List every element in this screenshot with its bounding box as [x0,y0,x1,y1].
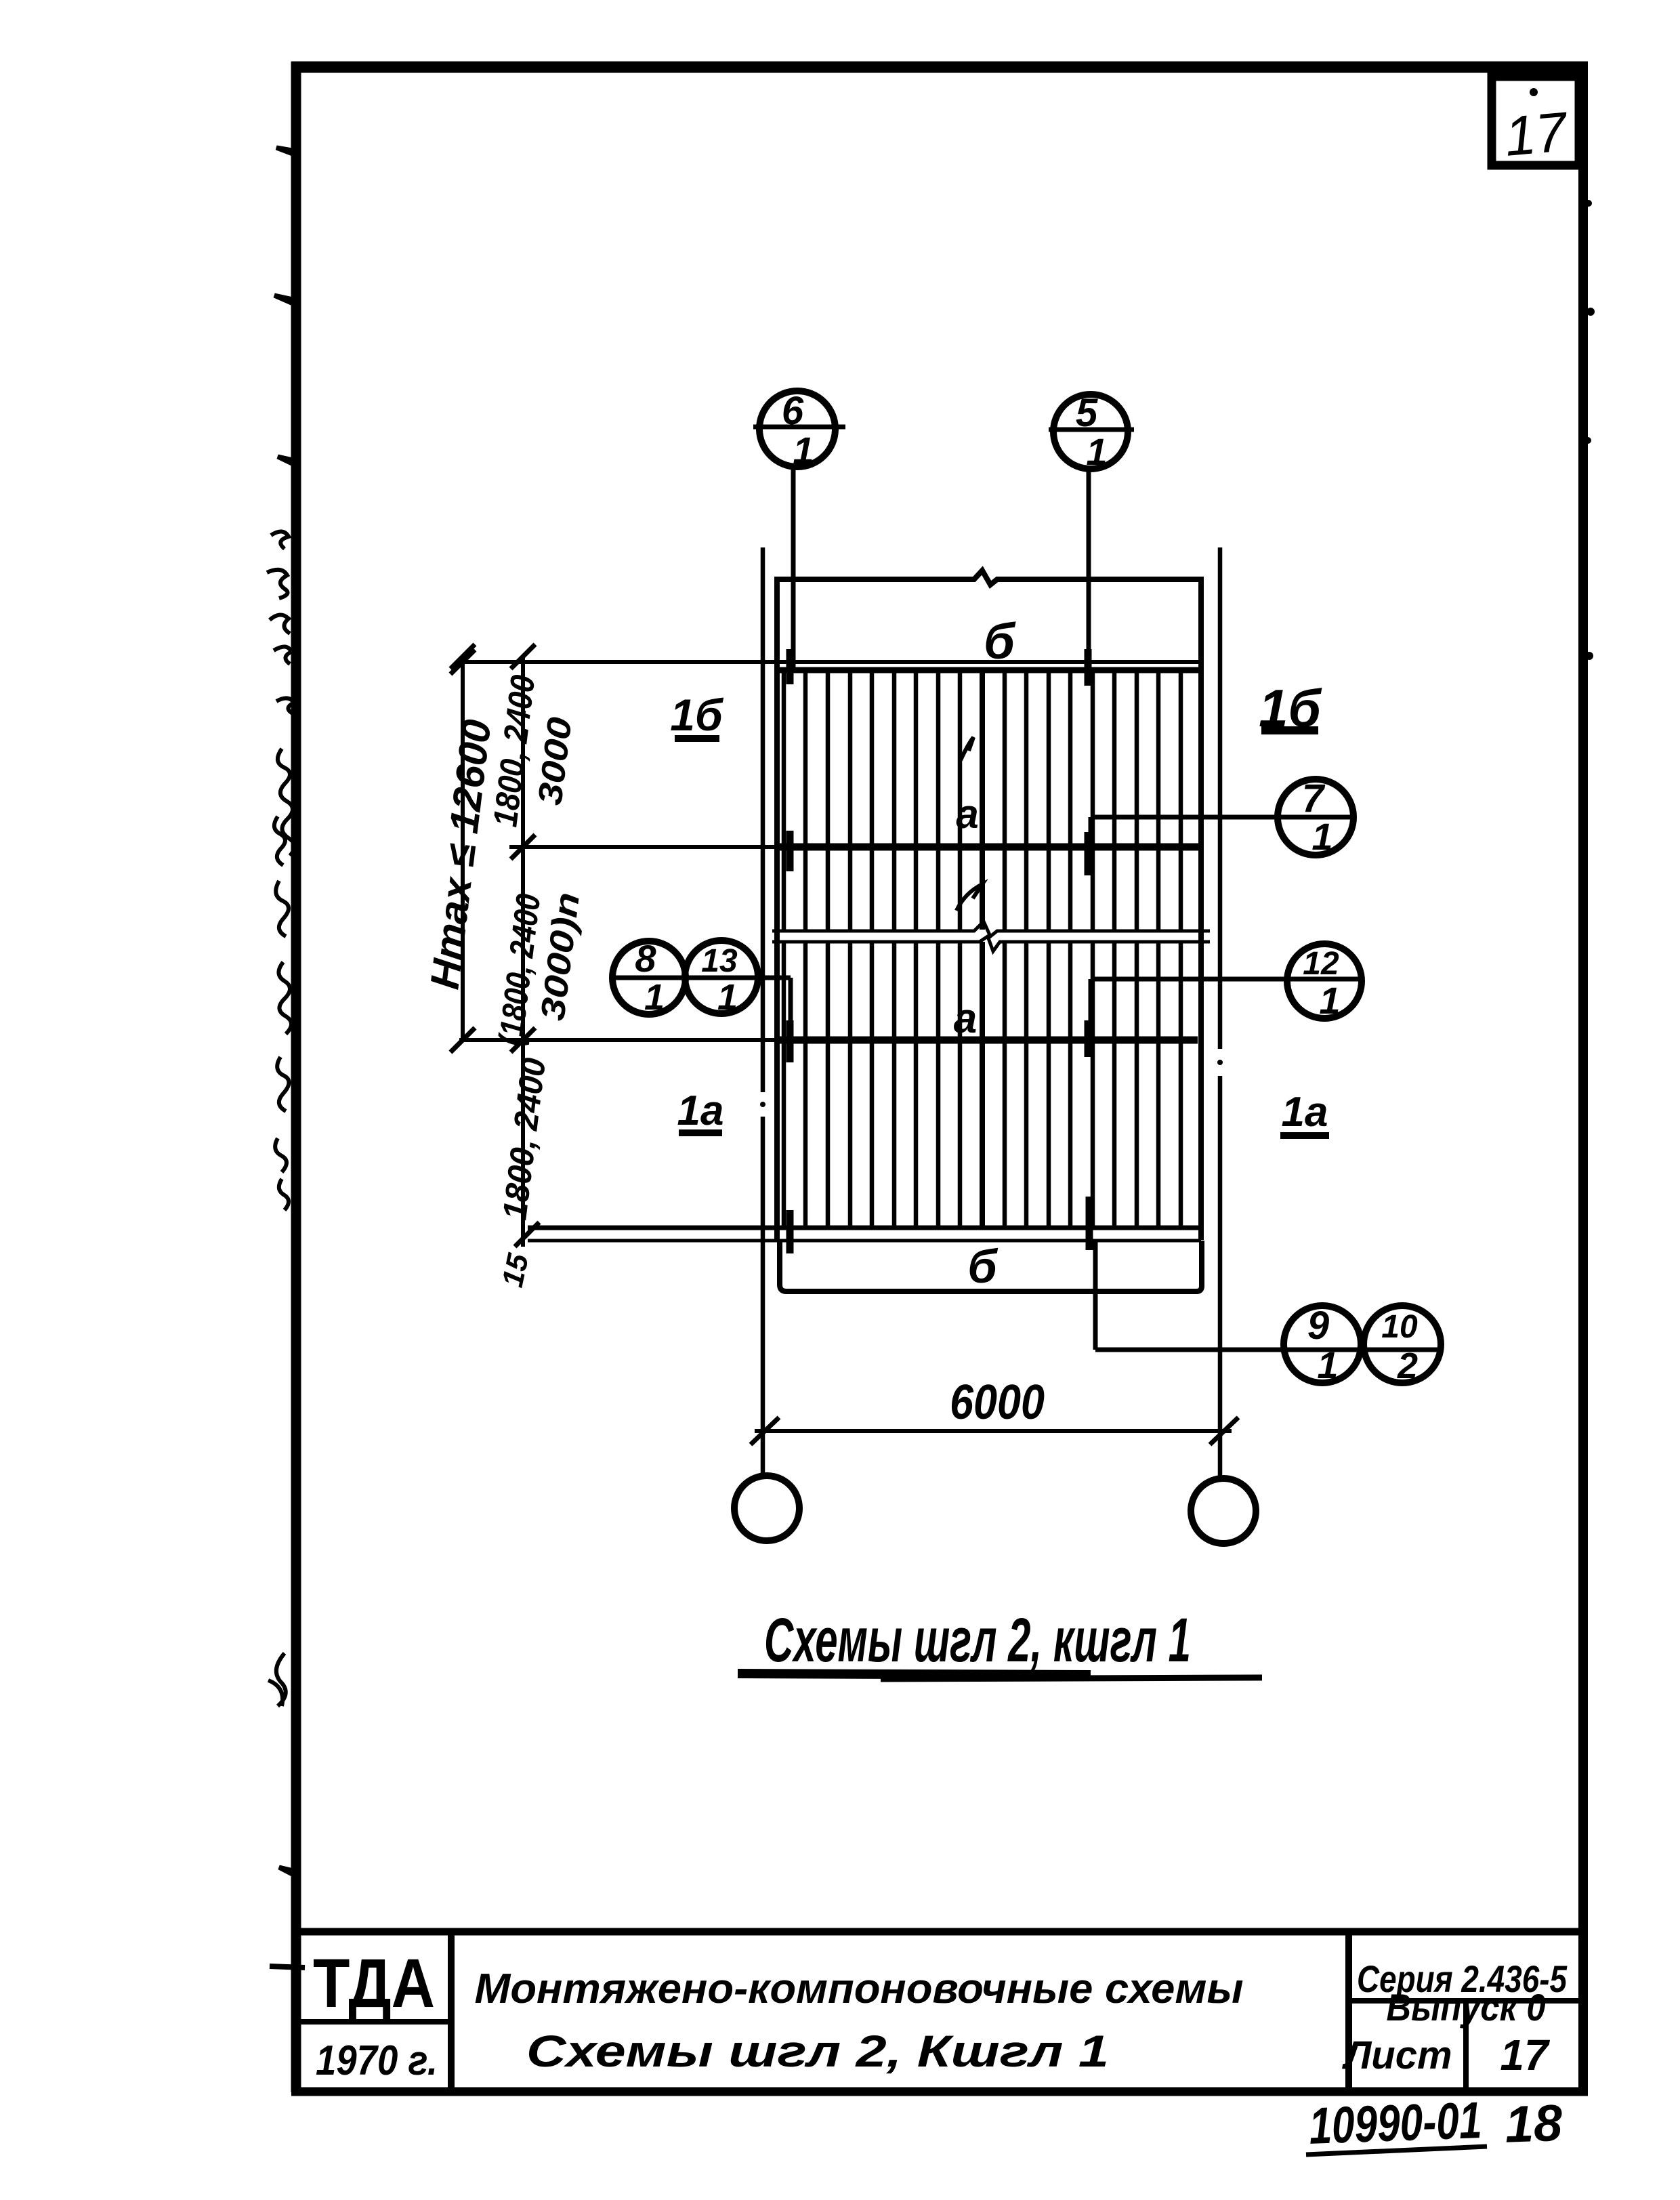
svg-text:9: 9 [1307,1304,1329,1348]
grid bubble right (empty circle bottom) [1191,1478,1256,1543]
rotated dim text (1800,2400 middle [491,892,547,1047]
top band label b [984,613,1016,669]
callout circle 6/1 [753,391,845,467]
hatch lines upper section [784,671,1181,930]
svg-text:7: 7 [1302,776,1326,821]
sheet number box top right [1492,77,1579,165]
svg-text:1: 1 [1319,979,1340,1022]
svg-text:Схемы шгл 2, кшгл 1: Схемы шгл 2, кшгл 1 [764,1606,1191,1675]
grid bubble left (empty circle bottom) [734,1476,799,1541]
callout circle 10/2 [1364,1306,1441,1383]
page border frame [291,62,1588,2092]
svg-text:18: 18 [1504,2094,1563,2154]
left dimension line inner [511,644,535,1247]
svg-text:1: 1 [1086,430,1107,473]
callout circle 5/1 [1049,394,1134,469]
rotated dim text 3000)n middle [533,890,587,1022]
svg-text:2: 2 [1397,1346,1418,1386]
title block: sheet 17 [1500,2031,1551,2079]
bottom hatch rail [515,1222,1201,1247]
left dimension line outer (Hmax) [450,644,475,1052]
anchor tick left at middle joint [786,831,794,871]
tick top extension [450,650,475,674]
left margin handwritten scribbles [267,531,295,1706]
callout circle 12/1 with leader [1091,944,1364,1043]
title block frame [296,1932,1583,2092]
callout circle 9/1 with leader [1095,1241,1442,1383]
svg-text:1a: 1a [1282,1089,1328,1136]
anchor tick left at joint a [786,1020,794,1062]
svg-text:1a: 1a [677,1087,724,1134]
svg-text:a: a [956,791,978,837]
callout circle 7/1 with leader [1091,779,1353,869]
svg-text:1б: 1б [670,690,724,740]
dimension text 6000 [950,1375,1045,1430]
dimension 6000 line [751,1417,1238,1445]
svg-text:10: 10 [1381,1309,1418,1345]
callout circle 13/1 with leader [611,940,791,1023]
svg-text:6: 6 [782,389,804,433]
hatch lines lower section [784,942,1181,1226]
anchor tick right at top joint [1085,649,1092,686]
bottom band outline [780,1241,1202,1291]
sheet number 17 handwritten [1502,88,1571,168]
rotated dim text 15 bottom [496,1251,535,1291]
title block main name line 2 [526,2026,1109,2076]
svg-text:17: 17 [1500,2031,1551,2079]
svg-text:1: 1 [1311,815,1332,858]
callout circle 8/1 [612,941,686,1014]
svg-text:ТДА: ТДА [313,1945,435,2022]
break lines (interruption) [772,921,1210,951]
svg-text:1: 1 [644,977,665,1018]
rotated dim text 1800,2400 bottom [495,1056,553,1222]
right border specks [1584,200,1595,660]
title block main name line 1 [475,1966,1244,2012]
svg-text:Схемы шгл 2, Кшгл 1: Схемы шгл 2, Кшгл 1 [526,2026,1109,2076]
svg-text:Лист: Лист [1341,2033,1452,2077]
top joint rail (extends left as dimension line) [461,660,1201,664]
anchor tick right at bottom joint [1086,1197,1093,1250]
svg-text:б: б [967,1240,998,1293]
zone label 1b right [1259,678,1322,738]
zone label 1b left [670,690,724,740]
svg-text:5: 5 [1076,391,1098,435]
svg-text:1: 1 [717,977,738,1018]
rotated dim text 3000 top [530,715,579,807]
rotated dim text Hmax<=12600 [421,717,499,991]
title block: vypusk 0 [1387,1986,1546,2029]
joint rail a (dimension line a) [450,1028,1198,1052]
title block: TDA logo [313,1945,435,2022]
svg-text:a: a [954,995,977,1042]
pitch label a upper [956,791,978,837]
svg-text:6000: 6000 [950,1375,1045,1430]
title block: 1970 г. [316,2037,438,2084]
pitch mark arrow lower [957,884,982,911]
svg-text:17: 17 [1502,101,1571,168]
svg-text:12: 12 [1303,946,1339,982]
svg-text:1: 1 [1317,1344,1338,1386]
anchor tick right at middle joint [1085,832,1092,875]
anchor tick left at bottom joint [786,1210,794,1253]
pitch mark arrow upper [961,737,973,760]
svg-text:Монтяжено-компоновочные схемы: Монтяжено-компоновочные схемы [475,1966,1244,2012]
anchor tick right at joint a [1085,1020,1092,1057]
anchor tick left at top joint [786,649,794,684]
top joint rail thick [777,667,1201,673]
svg-text:13: 13 [701,943,738,979]
title block: list [1341,2033,1452,2077]
left margin registration ticks [270,148,305,1968]
panel outline [777,570,1201,1240]
bottom band label b [967,1240,998,1293]
grid axis line B (left, x=1126) [760,547,765,1476]
zone label 1a right [1282,1089,1328,1136]
zone label 1a left [677,1087,724,1134]
label a on rail [954,995,977,1042]
grid axis line D (right, x=1801) [1217,547,1223,1478]
post line from 5/1 [1087,469,1091,671]
svg-text:1970 г.: 1970 г. [316,2037,438,2084]
svg-text:Выпуск 0: Выпуск 0 [1387,1986,1546,2029]
handwritten doc number 10990-01 18 [1308,2089,1563,2161]
middle joint rail [509,835,1199,859]
svg-text:1: 1 [793,429,814,472]
caption underline [738,1674,1262,1679]
rotated dim text 1800,2400 top [486,673,542,829]
post line from 6/1 [791,467,796,667]
title block: seriya [1357,1957,1568,2000]
center thick post line in hatch [980,671,985,1226]
main caption: Схемы ШГЛ2, КШГЛ1 [764,1606,1191,1675]
svg-text:8: 8 [635,937,656,980]
